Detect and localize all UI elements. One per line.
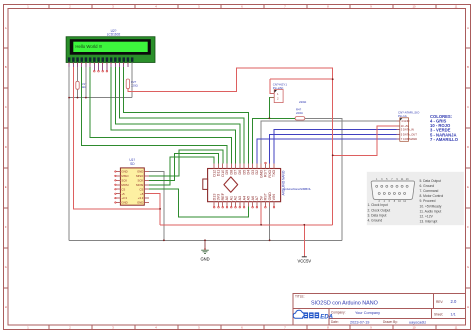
svg-text:Hello World !!!: Hello World !!! xyxy=(75,44,102,49)
svg-text:VCC5V: VCC5V xyxy=(297,259,311,264)
svg-text:2. Clock Output: 2. Clock Output xyxy=(368,208,391,212)
svg-text:ArduinoNanoSIMBOL: ArduinoNanoSIMBOL xyxy=(283,187,311,191)
svg-text:10 +5v: 10 +5v xyxy=(401,124,410,128)
svg-text:13. Interrupt: 13. Interrupt xyxy=(420,220,438,224)
svg-text:TITLE:: TITLE: xyxy=(295,294,305,298)
svg-text:H: H xyxy=(467,305,469,309)
svg-text:A: A xyxy=(467,26,469,30)
svg-text:10. +5V/Ready: 10. +5V/Ready xyxy=(420,204,442,208)
svg-text:H: H xyxy=(5,305,7,309)
svg-text:E: E xyxy=(467,185,469,189)
svg-text:5 DATA_OUT: 5 DATA_OUT xyxy=(401,132,418,136)
svg-text:E: E xyxy=(5,185,7,189)
svg-text:+3.3: +3.3 xyxy=(138,196,144,200)
svg-text:C: C xyxy=(5,105,7,109)
svg-text:Your Company: Your Company xyxy=(355,311,380,315)
svg-text:Drawn By:: Drawn By: xyxy=(383,320,398,324)
svg-text:+3.3: +3.3 xyxy=(121,196,127,200)
svg-text:MISO: MISO xyxy=(136,174,144,178)
svg-text:+5: +5 xyxy=(140,192,144,196)
svg-text:Pin-1A: Pin-1A xyxy=(398,114,407,118)
svg-text:SCK: SCK xyxy=(138,179,144,183)
svg-text:LCD1602: LCD1602 xyxy=(107,33,121,37)
svg-text:G: G xyxy=(467,265,469,269)
svg-text:CS: CS xyxy=(121,187,125,191)
svg-text:GND: GND xyxy=(137,201,143,205)
svg-text:220Ω: 220Ω xyxy=(296,111,303,115)
svg-text:5. Data Output: 5. Data Output xyxy=(420,179,442,183)
svg-text:VIN: VIN xyxy=(272,194,276,200)
svg-text:MISO: MISO xyxy=(121,174,129,178)
svg-text:+5: +5 xyxy=(121,192,125,196)
svg-text:Date:: Date: xyxy=(331,320,339,324)
svg-text:11. Audio Input: 11. Audio Input xyxy=(420,209,442,213)
svg-text:4 GND: 4 GND xyxy=(401,119,409,123)
svg-text:Company:: Company: xyxy=(331,311,346,315)
svg-text:B: B xyxy=(5,65,7,69)
svg-text:GND: GND xyxy=(121,170,127,174)
svg-text:2.0: 2.0 xyxy=(451,299,457,304)
svg-text:EDA: EDA xyxy=(320,314,333,320)
svg-text:SIO2SD con Arduino NANO: SIO2SD con Arduino NANO xyxy=(311,300,378,306)
svg-text:4. Ground: 4. Ground xyxy=(368,218,383,222)
svg-text:3 DATA_IN: 3 DATA_IN xyxy=(401,128,414,132)
svg-text:A: A xyxy=(5,26,7,30)
svg-text:Pin-2AK: Pin-2AK xyxy=(273,86,284,90)
svg-text:MOSI: MOSI xyxy=(136,183,143,187)
svg-text:1/1: 1/1 xyxy=(451,313,456,317)
svg-text:C: C xyxy=(467,105,469,109)
svg-text:SD: SD xyxy=(130,162,135,166)
svg-text:SCK: SCK xyxy=(121,179,127,183)
svg-text:GND: GND xyxy=(200,257,209,262)
svg-text:1. Clock Input: 1. Clock Input xyxy=(368,203,388,207)
svg-text:D: D xyxy=(467,145,469,149)
svg-text:2023-07-19: 2023-07-19 xyxy=(350,320,369,324)
svg-text:220Ω: 220Ω xyxy=(299,100,307,104)
svg-text:D: D xyxy=(5,145,7,149)
svg-text:G: G xyxy=(5,265,7,269)
svg-text:GND: GND xyxy=(137,170,143,174)
svg-text:REV:: REV: xyxy=(436,300,443,304)
svg-text:7 - AMARILLO: 7 - AMARILLO xyxy=(430,137,459,142)
svg-text:6. Ground: 6. Ground xyxy=(420,184,435,188)
svg-text:GND: GND xyxy=(121,201,127,205)
svg-text:B: B xyxy=(467,65,469,69)
svg-text:7 COMMAND: 7 COMMAND xyxy=(401,137,417,141)
svg-text:9. Proceed: 9. Proceed xyxy=(420,199,436,203)
svg-text:Sheet:: Sheet: xyxy=(434,312,443,316)
svg-text:CS: CS xyxy=(139,187,143,191)
svg-text:12. +12V: 12. +12V xyxy=(420,214,434,218)
svg-text:3. Data Input: 3. Data Input xyxy=(368,213,387,217)
svg-text:uayocadiz: uayocadiz xyxy=(409,320,426,324)
svg-text:7. Command: 7. Command xyxy=(420,189,439,193)
svg-text:MOSI: MOSI xyxy=(121,183,128,187)
svg-text:8. Motor Control: 8. Motor Control xyxy=(420,194,444,198)
svg-text:ARDUINO NANO: ARDUINO NANO xyxy=(282,170,286,195)
svg-text:TXD: TXD xyxy=(272,169,276,177)
